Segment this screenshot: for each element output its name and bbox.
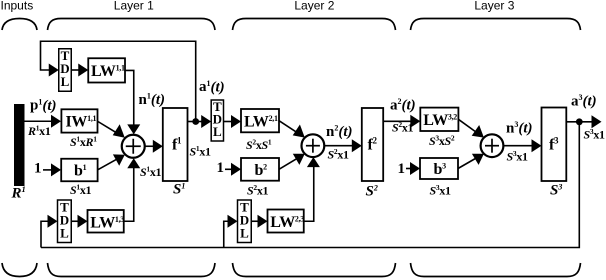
svg-text:S3x1: S3x1	[430, 183, 452, 198]
wire TDL21 to LW21	[224, 121, 233, 123]
svg-text:1: 1	[217, 160, 225, 176]
arrow into f1	[153, 140, 163, 153]
brace bottom layer 1	[48, 263, 216, 277]
wire f3 out	[566, 121, 593, 123]
wire TDL13 to LW13	[71, 220, 79, 222]
svg-text:S1xR1: S1xR1	[70, 135, 97, 150]
wire f2 to LW32	[383, 120, 412, 122]
svg-text:L: L	[240, 226, 249, 241]
transfer box f2	[362, 108, 383, 181]
svg-text:S1x1: S1x1	[70, 183, 92, 198]
svg-text:L: L	[213, 124, 222, 139]
brace top layer 1	[48, 19, 216, 31]
svg-text:a3(t): a3(t)	[571, 93, 597, 110]
svg-text:a2(t): a2(t)	[390, 97, 416, 114]
svg-text:S2x1: S2x1	[247, 183, 269, 198]
sum junction 3	[481, 134, 504, 157]
svg-text:R1x1: R1x1	[27, 124, 51, 139]
wire 1 to b3	[406, 168, 412, 170]
brace top layer 3	[411, 19, 581, 31]
arrow into LW23	[258, 215, 268, 228]
delay box TDL13	[58, 200, 72, 243]
wire p1 input	[25, 120, 53, 122]
arrow into b2	[231, 163, 241, 176]
svg-text:Layer 1: Layer 1	[114, 0, 154, 13]
svg-text:n2(t): n2(t)	[326, 124, 353, 141]
weight box IW11	[61, 109, 97, 132]
wire IW to sum1	[98, 121, 120, 134]
arrow down into sum1	[127, 124, 140, 134]
svg-text:n1(t): n1(t)	[139, 92, 166, 109]
brace bottom inputs	[2, 263, 37, 277]
bias box b1	[61, 159, 97, 182]
transfer box f1	[163, 108, 188, 181]
arrow into LW11	[78, 64, 88, 77]
node a1 junction dot	[192, 118, 199, 125]
svg-text:L: L	[61, 74, 70, 89]
arrow b3 sum3	[472, 154, 484, 165]
wire LW32 to sum3	[458, 119, 478, 133]
arrow into TDL13	[48, 215, 58, 228]
wire LW13 to sum1 bottom	[124, 167, 134, 221]
svg-text:Inputs: Inputs	[1, 0, 34, 13]
bias box b3	[420, 158, 458, 179]
transfer box f3	[542, 108, 567, 182]
weight box LW21	[241, 109, 279, 132]
wire LW11 to sum1 top	[125, 70, 134, 125]
wire f1 out to junction	[188, 121, 203, 123]
sum junction 1	[122, 135, 145, 158]
arrow b1 sum1	[113, 154, 125, 165]
wire sum3 to f3	[503, 145, 533, 147]
svg-text:S1x1: S1x1	[190, 144, 212, 159]
svg-text:L: L	[60, 226, 69, 241]
svg-text:S3x1: S3x1	[507, 149, 529, 164]
svg-text:Layer 2: Layer 2	[294, 0, 334, 13]
weight box LW11	[88, 58, 125, 82]
arrow into f3	[532, 139, 542, 152]
brace top inputs	[2, 19, 37, 31]
input bar R1	[14, 104, 25, 186]
arrow into LW21	[231, 115, 241, 128]
svg-text:S3x1: S3x1	[584, 127, 606, 142]
wire LW21 to sum2	[279, 121, 299, 134]
wire 1 to b1	[43, 169, 52, 171]
svg-text:1: 1	[34, 161, 42, 177]
svg-text:a1(t): a1(t)	[199, 79, 225, 96]
arrow into IW	[51, 115, 61, 128]
svg-text:S1x1: S1x1	[140, 165, 162, 180]
wire sum2 to f2	[324, 145, 353, 147]
svg-text:Layer 3: Layer 3	[474, 0, 514, 13]
wire global feedback	[41, 124, 579, 248]
arrow into b3	[410, 162, 420, 175]
weight box LW13	[88, 210, 125, 233]
wire bottom feedback into TDL13	[41, 221, 49, 247]
delay box TDL23	[238, 200, 252, 243]
wire sum1 to f1	[145, 145, 155, 147]
delay box TDL21	[211, 99, 223, 141]
arrow LW32 sum3	[472, 125, 484, 138]
wire TDL11 to LW11	[71, 69, 80, 71]
arrow LW21 sum2	[293, 125, 305, 138]
wire TDL23 to LW23	[251, 220, 259, 222]
brace bottom layer 2	[233, 263, 396, 277]
arrow into TDL11	[49, 64, 59, 77]
arrow up into sum1	[127, 158, 140, 168]
delay box TDL11	[59, 48, 72, 91]
arrow into TDL21	[201, 115, 211, 128]
wire b3 to sum3	[458, 157, 478, 169]
arrow into LW32	[410, 115, 420, 128]
arrow into b1	[51, 163, 61, 176]
sum junction 2	[302, 134, 325, 157]
wire 1 to b2	[225, 168, 233, 170]
brace top layer 2	[233, 19, 396, 31]
wire feedback a1 top	[41, 41, 196, 121]
svg-text:n3(t): n3(t)	[506, 120, 533, 137]
arrow into f2	[352, 139, 362, 152]
bias box b2	[241, 158, 279, 181]
svg-text:1: 1	[398, 161, 406, 177]
node a3 junction dot	[576, 118, 583, 125]
arrow b2 sum2	[293, 154, 305, 165]
arrow a3 output	[592, 115, 602, 128]
arrow up into sum2	[307, 157, 320, 167]
weight box LW23	[268, 210, 305, 233]
svg-text:S2x1: S2x1	[328, 147, 350, 162]
svg-text:S2x1: S2x1	[392, 120, 414, 135]
wire b2 to sum2	[279, 157, 299, 169]
wire b1 to sum1	[98, 158, 120, 170]
weight box LW32	[420, 108, 458, 131]
wire LW23 to sum2 bottom	[304, 166, 314, 221]
wire bottom feedback into TDL23	[224, 221, 229, 247]
brace bottom layer 3	[411, 263, 581, 277]
arrow into LW13	[78, 215, 88, 228]
arrow into TDL23	[228, 215, 238, 228]
arrow IW sum1	[113, 124, 125, 138]
svg-text:p1(t): p1(t)	[30, 98, 57, 115]
